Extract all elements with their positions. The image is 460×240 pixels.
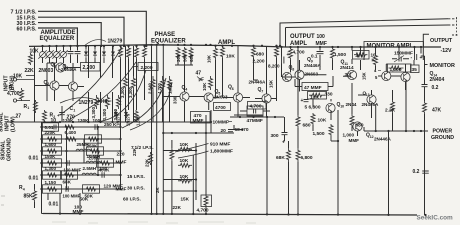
- resistor 500: [183, 47, 187, 59]
- resistor 2.2K: [391, 100, 395, 113]
- svg-text:1N279: 1N279: [108, 39, 123, 45]
- svg-text:22K: 22K: [173, 205, 182, 210]
- svg-text:10K: 10K: [30, 49, 40, 55]
- svg-text:8: 8: [292, 67, 294, 71]
- svg-text:300: 300: [271, 133, 279, 139]
- wire 7 1/2 IPS line: [38, 11, 146, 46]
- svg-text:2,200: 2,200: [83, 65, 96, 71]
- capacitor 0.01 boxed: [43, 123, 59, 131]
- junction dots output bus: [289, 46, 291, 48]
- svg-text:13: 13: [366, 93, 370, 97]
- wire signal ground: [6, 121, 211, 123]
- transistor Q14 monitor out: [401, 72, 410, 81]
- svg-text:2N44: 2N44: [346, 102, 357, 107]
- wire monitor emitter rails: [372, 90, 393, 131]
- capacitor network top: [70, 46, 72, 51]
- resistor 50K boxed: [83, 185, 100, 193]
- resistor 2640: [151, 76, 155, 92]
- wire output stub: [423, 34, 429, 47]
- resistor 68K: [287, 148, 291, 162]
- junction dots ampl bus: [214, 45, 216, 47]
- svg-text:10K: 10K: [226, 53, 235, 59]
- junction dots phase bus: [150, 44, 152, 46]
- svg-text:35: 35: [412, 67, 418, 73]
- svg-text:+: +: [301, 98, 304, 104]
- svg-text:1,000: 1,000: [343, 132, 355, 137]
- wire 30 IPS line: [38, 23, 101, 46]
- scan artifact left edge: [1, 196, 5, 205]
- svg-text:4: 4: [23, 188, 25, 192]
- svg-text:2,200: 2,200: [253, 58, 265, 64]
- resistor 10K lower: [311, 113, 315, 125]
- svg-text:680: 680: [256, 52, 264, 58]
- resistor 1000 boxed: [388, 64, 412, 72]
- wire power ground drops: [364, 127, 389, 215]
- resistor 2200 boxed: [81, 63, 101, 72]
- svg-text:2N603: 2N603: [305, 71, 319, 76]
- wire connector dashed vertical: [456, 17, 458, 36]
- svg-text:680: 680: [303, 123, 311, 129]
- svg-text:1: 1: [73, 108, 75, 112]
- svg-text:4,700: 4,700: [197, 207, 209, 213]
- svg-text:POWER: POWER: [433, 129, 453, 135]
- svg-text:1,150: 1,150: [45, 180, 57, 185]
- resistor 6,400: [64, 137, 79, 141]
- resistor 4700 phase: [161, 76, 165, 92]
- svg-text:MMF: MMF: [116, 187, 127, 193]
- resistor 10K feedback boxed: [308, 92, 327, 100]
- svg-text:4: 4: [185, 87, 187, 91]
- wire equalizer bottom drop: [35, 193, 81, 214]
- svg-text:15K: 15K: [362, 72, 367, 80]
- svg-text:120: 120: [100, 166, 108, 171]
- svg-text:1,690: 1,690: [167, 82, 172, 94]
- svg-text:910 MMF: 910 MMF: [210, 141, 230, 147]
- wire left border vertical: [35, 46, 44, 213]
- svg-text:2,200: 2,200: [141, 65, 153, 71]
- capacitor 100MMF under bus: [319, 47, 321, 51]
- svg-text:680: 680: [356, 123, 364, 129]
- wire feedback line A: [280, 19, 448, 47]
- capacitor 100 MMF: [95, 124, 97, 130]
- svg-text:6: 6: [232, 87, 234, 91]
- svg-text:130K: 130K: [63, 118, 75, 123]
- wire output dashed: [452, 34, 458, 36]
- resistor 22K: [29, 53, 33, 65]
- wire feedback big arcs: [60, 47, 122, 115]
- svg-text:6,800: 6,800: [301, 155, 313, 161]
- wire ampl emitter drops: [238, 102, 267, 117]
- svg-text:+: +: [57, 113, 60, 118]
- inductor 2.5MH: [82, 173, 96, 175]
- svg-text:µF: µF: [199, 77, 205, 82]
- wire monitor output vertical: [424, 65, 426, 102]
- svg-text:470: 470: [241, 127, 249, 133]
- trimmer capacitor bank: [40, 52, 46, 58]
- resistor 4700 ampl boxed: [248, 102, 267, 110]
- resistor 1,600 boxed: [43, 147, 62, 155]
- resistor 10K vertical: [374, 54, 378, 66]
- svg-text:50K: 50K: [80, 197, 89, 203]
- svg-text:MMF: MMF: [116, 159, 127, 165]
- svg-text:100: 100: [317, 34, 326, 40]
- resistor 4700 output: [289, 47, 293, 60]
- svg-text:0.01: 0.01: [49, 201, 59, 207]
- wire monitor links: [378, 64, 406, 90]
- scan artifacts bottom: [52, 222, 256, 223]
- resistor 150K boxed: [43, 159, 62, 167]
- svg-text:68K: 68K: [63, 180, 72, 185]
- svg-text:EQUALIZER: EQUALIZER: [40, 36, 75, 42]
- svg-text:2.5MH: 2.5MH: [83, 166, 97, 171]
- resistor 680 lower: [296, 115, 300, 128]
- wire monitor box sides: [364, 47, 423, 60]
- svg-text:PHASE: PHASE: [155, 32, 176, 38]
- wire emitter rail: [47, 90, 73, 101]
- capacitor electrolytic coupling: [282, 57, 284, 64]
- wire ladder internal rails: [67, 127, 99, 189]
- svg-text:GROUND: GROUND: [7, 138, 13, 161]
- capacitor 35 boxed: [411, 65, 420, 73]
- svg-text:1,600: 1,600: [45, 142, 57, 147]
- svg-text:4,700: 4,700: [7, 91, 20, 97]
- wire feedback line A dashed end: [448, 18, 457, 20]
- diode string top: [85, 46, 87, 49]
- svg-text:EQUALIZER: EQUALIZER: [151, 39, 186, 45]
- wire power ground rail: [364, 130, 428, 132]
- wire ladder row y189: [42, 188, 121, 190]
- resistor 1500 monitor input: [331, 47, 335, 60]
- svg-text:25MH: 25MH: [77, 142, 90, 147]
- wire ladder row y163: [42, 162, 121, 164]
- svg-text:220K: 220K: [45, 130, 57, 135]
- wire output ampl column drops: [282, 28, 296, 78]
- svg-text:10K: 10K: [207, 54, 212, 63]
- resistor 300: [176, 47, 180, 59]
- svg-text:OUTPUT: OUTPUT: [290, 34, 315, 40]
- svg-text:4700: 4700: [215, 105, 226, 111]
- wire Q1 collector: [47, 63, 81, 68]
- resistor 1,150 boxed: [43, 185, 62, 193]
- wire Q4 Q5 links: [163, 97, 219, 123]
- svg-text:2N404: 2N404: [430, 77, 445, 83]
- svg-text:15K: 15K: [269, 79, 274, 88]
- resistor 4700 boxed Q5: [214, 103, 231, 111]
- resistor 250K boxed: [87, 147, 104, 155]
- svg-text:0.2: 0.2: [432, 85, 439, 91]
- svg-text:20: 20: [221, 128, 227, 134]
- wire feedback arc amplitude: [95, 70, 146, 122]
- svg-text:3,300: 3,300: [120, 86, 125, 98]
- wire 470MMF column: [210, 110, 212, 133]
- capacitor 0.2 monitor: [422, 85, 428, 87]
- wire ladder row y127: [42, 126, 121, 128]
- svg-text:SeekIC.com: SeekIC.com: [417, 215, 454, 222]
- resistor 8200: [275, 46, 279, 58]
- resistor 680: [189, 47, 193, 59]
- wire ladder row y139: [42, 138, 121, 140]
- resistor 3300 phase b: [132, 76, 136, 90]
- junction dots signal ground: [43, 121, 45, 123]
- svg-text:1,500: 1,500: [334, 52, 346, 58]
- resistor 68K boxed: [61, 171, 78, 179]
- svg-text:15K: 15K: [181, 197, 190, 202]
- wire 1N279 arc: [84, 40, 106, 46]
- svg-text:3,300: 3,300: [102, 109, 107, 121]
- svg-text:220: 220: [117, 151, 125, 157]
- svg-text:1,800MMF: 1,800MMF: [210, 149, 233, 155]
- wire phase equalizer feedback arcs: [122, 78, 166, 128]
- svg-text:-12V: -12V: [441, 48, 452, 54]
- label MONITOR AMPL box: [364, 42, 424, 48]
- svg-text:2K: 2K: [155, 187, 160, 193]
- wire monitor column drops: [352, 47, 421, 131]
- svg-text:30 I.P.S.: 30 I.P.S.: [127, 186, 145, 192]
- wire phase rail verticals: [152, 46, 164, 214]
- wire lower verticals to ground bus: [267, 110, 338, 215]
- svg-text:22K: 22K: [25, 68, 35, 74]
- resistor 10K ampl b: [221, 46, 225, 58]
- svg-text:2.2K: 2.2K: [385, 108, 396, 114]
- svg-text:85K: 85K: [24, 194, 34, 200]
- junction dots on supply bus: [41, 45, 43, 47]
- svg-text:0.01: 0.01: [29, 155, 39, 161]
- svg-text:1N279: 1N279: [79, 100, 94, 106]
- resistor 1,300 boxed: [43, 171, 62, 179]
- svg-text:1/2 I.P.S.: 1/2 I.P.S.: [135, 145, 154, 151]
- wire 4700 to bus: [192, 155, 194, 214]
- svg-text:2,640: 2,640: [148, 82, 153, 94]
- capacitor 47MMF boxed: [247, 106, 263, 116]
- resistor 2200 collector: [119, 46, 123, 59]
- wire 300-500-680 bottoms: [175, 59, 193, 92]
- svg-text:3,300: 3,300: [128, 86, 133, 98]
- resistor 470 boxed: [353, 51, 370, 60]
- wire phase mid verticals: [126, 46, 134, 122]
- transistor Q12: [353, 122, 362, 131]
- svg-text:100: 100: [93, 118, 101, 123]
- svg-text:10MMF: 10MMF: [213, 119, 229, 125]
- svg-text:7: 7: [261, 89, 263, 93]
- wire ladder row y175: [42, 174, 121, 176]
- wire phase mid horizontal: [163, 132, 234, 134]
- svg-text:MMF: MMF: [349, 138, 360, 143]
- svg-text:22K: 22K: [132, 147, 137, 156]
- wire 10K column rail: [195, 143, 197, 200]
- svg-text:150K: 150K: [45, 154, 57, 159]
- svg-text:47MMF: 47MMF: [247, 118, 263, 124]
- resistor 400K boxed: [97, 159, 114, 167]
- svg-text:1,000: 1,000: [390, 67, 402, 73]
- svg-text:0.1: 0.1: [311, 54, 318, 59]
- capacitor 1800 MMF leader: [178, 151, 209, 158]
- svg-text:MMF: MMF: [73, 209, 84, 215]
- resistor 4700 emitter boxed: [205, 115, 207, 195]
- svg-text:10 MH: 10 MH: [87, 154, 101, 159]
- svg-text:30: 30: [345, 72, 351, 78]
- svg-text:100 MMF: 100 MMF: [63, 194, 81, 199]
- svg-text:27: 27: [16, 113, 22, 119]
- wire equalizer right rail: [120, 122, 122, 189]
- capacitor 470 MMF boxed: [191, 112, 211, 124]
- svg-text:1,300: 1,300: [45, 166, 57, 171]
- inductor 25MH: [76, 149, 90, 151]
- wire feedback line B: [286, 25, 449, 28]
- capacitor 910 MMF leader: [175, 144, 209, 153]
- svg-text:3,300: 3,300: [91, 107, 96, 119]
- wire 22K rail: [171, 140, 173, 214]
- inductor 10 MH: [86, 161, 100, 163]
- transistor Q5 2N603: [204, 93, 213, 102]
- wire Q10 emitter drop: [313, 111, 331, 131]
- wire -12V supply bus: [29, 45, 441, 47]
- svg-text:4,700: 4,700: [157, 82, 162, 94]
- svg-text:2N446A: 2N446A: [362, 102, 380, 107]
- svg-text:47 MMF: 47 MMF: [304, 85, 322, 91]
- wire ampl stage links: [223, 98, 278, 99]
- svg-text:470: 470: [356, 54, 364, 59]
- wire ampl emitter row: [230, 116, 284, 118]
- svg-text:60 I.P.S.: 60 I.P.S.: [123, 196, 141, 202]
- svg-text:330: 330: [325, 92, 333, 98]
- svg-text:0.01: 0.01: [29, 175, 39, 181]
- svg-text:GROUND: GROUND: [431, 135, 454, 141]
- svg-text:10K: 10K: [310, 94, 319, 100]
- resistor 1690: [168, 76, 172, 92]
- svg-text:10: 10: [340, 105, 344, 109]
- svg-text:4,700: 4,700: [293, 50, 305, 56]
- transistor Q13 2N446A label: [367, 95, 376, 104]
- resistor 47K monitor: [423, 101, 427, 114]
- resistor 3300 a: [95, 95, 99, 109]
- capacitor 100 MMF: [66, 186, 68, 192]
- svg-text:MONITOR: MONITOR: [430, 63, 455, 69]
- resistor 130K: [62, 125, 77, 129]
- svg-text:10: 10: [51, 118, 57, 124]
- svg-text:2N603: 2N603: [39, 68, 54, 74]
- node MONITOR output: [421, 56, 428, 65]
- wire ampl emitter row: [228, 115, 263, 130]
- svg-text:MMF: MMF: [316, 41, 327, 47]
- resistor 680 ampl: [252, 46, 256, 58]
- wire ampl column drops: [216, 46, 277, 101]
- wire ground return bus: [43, 214, 417, 216]
- wire equalizer ladder left rail: [42, 126, 45, 128]
- svg-text:0.2: 0.2: [413, 169, 420, 175]
- capacitor 160 MMF: [67, 160, 69, 166]
- capacitor 47 MMF boxed: [302, 83, 328, 91]
- resistor 250K boxed: [85, 135, 102, 143]
- svg-text:330: 330: [173, 96, 178, 104]
- input terminal low: [16, 100, 30, 102]
- transistor Q3: [68, 82, 77, 91]
- svg-text:-: -: [411, 55, 413, 61]
- svg-text:8,200: 8,200: [268, 63, 280, 68]
- wire feedback 47MMF link: [295, 76, 333, 87]
- capacitor 120 MMF: [102, 172, 104, 178]
- wire ladder row y151: [42, 150, 121, 152]
- resistor 6800 lower: [296, 148, 300, 162]
- svg-text:1: 1: [27, 106, 29, 110]
- wire diode arc: [60, 98, 96, 103]
- svg-text:OUTPUT: OUTPUT: [430, 38, 453, 44]
- svg-text:MMF: MMF: [193, 118, 204, 124]
- resistor 3300 phase a: [124, 76, 128, 90]
- wire 60 IPS line: [38, 28, 77, 46]
- wire equalizer column drops: [47, 46, 113, 90]
- svg-text:60 I.P.S.: 60 I.P.S.: [17, 26, 37, 32]
- wire feedback line B dashed end: [448, 24, 457, 26]
- svg-text:10K: 10K: [13, 73, 23, 79]
- resistor 2200 phase boxed: [138, 63, 158, 71]
- transistor Q13 monitor: [382, 71, 391, 80]
- svg-text:2N446A: 2N446A: [304, 63, 322, 68]
- svg-text:68K: 68K: [276, 155, 285, 161]
- wire 15 IPS line: [38, 17, 124, 46]
- resistor 220K boxed: [43, 135, 62, 143]
- resistor 3300 b: [106, 95, 110, 109]
- resistor 680 monitor: [350, 114, 354, 127]
- svg-text:2N414: 2N414: [340, 65, 354, 70]
- resistor 10K ampl a: [214, 46, 218, 60]
- wire base Q2: [35, 86, 85, 87]
- svg-text:10K: 10K: [318, 118, 327, 124]
- svg-text:47K: 47K: [432, 108, 442, 114]
- resistor 3300 c: [117, 95, 121, 109]
- svg-text:15 I.P.S.: 15 I.P.S.: [127, 174, 145, 180]
- svg-text:1,500: 1,500: [313, 131, 325, 137]
- input terminal high: [16, 79, 34, 81]
- svg-text:10K: 10K: [202, 82, 207, 91]
